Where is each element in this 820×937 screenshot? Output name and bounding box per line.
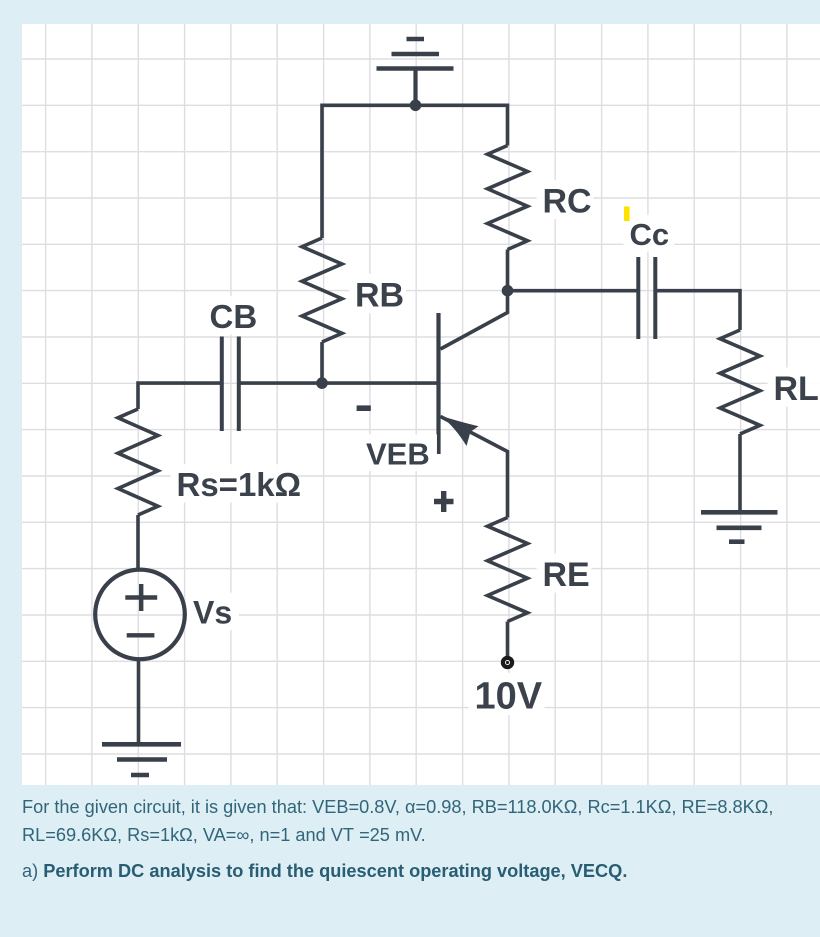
svg-text:Rs=1kΩ: Rs=1kΩ <box>177 466 302 503</box>
wire CB to base <box>240 381 439 385</box>
label CB <box>204 296 259 334</box>
wire RC bottom <box>506 250 510 291</box>
svg-text:10V: 10V <box>475 676 543 718</box>
question text <box>22 861 627 882</box>
svg-text:CB: CB <box>210 298 258 335</box>
node collector junction <box>502 285 514 297</box>
cursor mark (yellow) <box>624 207 630 222</box>
label 10V <box>469 673 545 715</box>
resistor RE <box>488 518 528 622</box>
wire RL to ground <box>738 434 742 512</box>
svg-text:VEB: VEB <box>366 437 430 472</box>
node 10V terminal <box>503 658 512 667</box>
transistor Q1 emitter arrow <box>440 416 479 447</box>
resistor RL <box>720 330 760 434</box>
svg-text:RE: RE <box>543 556 590 594</box>
ground left <box>102 744 181 775</box>
capacitor CB <box>222 337 239 432</box>
capacitor Cc <box>638 257 655 339</box>
label plus (VEB polarity) <box>434 491 454 512</box>
label minus (VEB polarity) <box>357 405 371 411</box>
transistor Q1 collector <box>441 291 508 349</box>
label RL <box>768 367 820 406</box>
svg-text:RB: RB <box>355 277 404 315</box>
wire Rs to Vs <box>136 515 140 568</box>
wire collector to Cc <box>508 289 639 293</box>
label Vs <box>187 593 239 631</box>
wire RB bottom <box>320 342 324 383</box>
resistor RC <box>488 146 528 250</box>
svg-text:RC: RC <box>543 183 592 221</box>
wire Vs to ground <box>137 661 141 745</box>
transistor Q1 base bar <box>436 313 440 454</box>
node top junction <box>410 100 422 112</box>
ground top <box>377 39 454 69</box>
svg-text:Cc: Cc <box>630 217 670 252</box>
label RC <box>537 180 594 219</box>
wire RE bottom <box>506 622 510 658</box>
wire top rail <box>322 105 508 238</box>
resistor Rs <box>118 409 158 515</box>
label RE <box>537 553 592 592</box>
label VEB <box>360 434 437 471</box>
resistor RB <box>302 238 342 342</box>
svg-text:RL: RL <box>774 370 819 408</box>
problem statement text <box>22 793 773 850</box>
wire Cc to RL <box>656 291 741 330</box>
node base junction <box>316 377 328 389</box>
transistor Q1 emitter <box>441 417 508 518</box>
label RB <box>349 274 406 313</box>
wire CB left <box>138 383 222 409</box>
label Cc <box>624 215 675 252</box>
label Rs=1kOhm <box>171 464 293 502</box>
source Vs <box>95 570 185 660</box>
ground right <box>701 512 778 541</box>
svg-text:Vs: Vs <box>193 595 232 631</box>
